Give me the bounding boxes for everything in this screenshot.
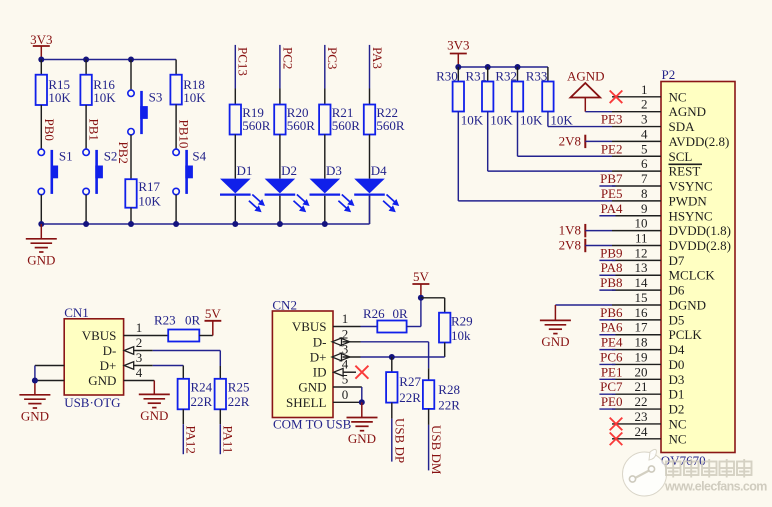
CN2 pin number 4 <box>342 357 349 372</box>
svg-text:PE5: PE5 <box>601 186 623 201</box>
svg-text:D2: D2 <box>281 163 297 178</box>
svg-text:MCLCK: MCLCK <box>669 268 716 283</box>
node PC13 <box>235 45 250 89</box>
resistor R29 <box>439 313 473 343</box>
wire stub pin 13 <box>599 274 615 276</box>
svg-text:PA8: PA8 <box>601 260 623 275</box>
pin 2 wire <box>612 111 661 113</box>
pin number 9 <box>641 201 648 216</box>
svg-text:3V3: 3V3 <box>30 32 52 47</box>
svg-text:11: 11 <box>635 231 648 246</box>
svg-text:10K: 10K <box>93 90 116 105</box>
svg-text:PE0: PE0 <box>601 394 623 409</box>
svg-text:8: 8 <box>641 186 648 201</box>
pin 23 wire <box>612 423 661 425</box>
pin number 10 <box>635 216 648 231</box>
svg-text:D4: D4 <box>669 342 685 357</box>
node PA12 <box>183 409 198 454</box>
wire stub pin 22 <box>599 408 615 410</box>
svg-text:SDA: SDA <box>669 119 696 134</box>
wire col1 pin upper <box>40 60 42 75</box>
svg-text:10K: 10K <box>461 113 484 128</box>
wire SHELL to GND <box>361 402 363 417</box>
svg-text:R25: R25 <box>228 380 250 395</box>
ground GND (DGND pin 15) <box>540 320 571 349</box>
node PB10 <box>177 120 192 149</box>
power 3V3 (P2 pullups) <box>447 38 469 68</box>
svg-text:12: 12 <box>635 245 648 260</box>
pin 16 wire <box>612 319 661 321</box>
svg-text:D4: D4 <box>371 163 387 178</box>
wire stub pin 16 <box>599 319 615 321</box>
node PC3 <box>325 45 340 89</box>
svg-text:18: 18 <box>635 335 648 350</box>
svg-text:560R: 560R <box>332 118 361 133</box>
CN1 pin number 1 <box>136 320 143 335</box>
no-connect pin 24 <box>610 433 623 446</box>
svg-text:22: 22 <box>635 394 648 409</box>
resistor R23 <box>154 313 201 342</box>
pin number 22 <box>635 394 648 409</box>
CN2 pin number 3 <box>342 342 349 357</box>
svg-text:1: 1 <box>641 82 648 97</box>
svg-text:D-: D- <box>313 334 327 349</box>
pin number 24 <box>635 424 649 439</box>
node PB7 (pin 7) <box>600 171 623 186</box>
svg-text:CN1: CN1 <box>64 305 89 320</box>
wire pullup pin upper R32 <box>517 67 519 82</box>
CN1 pin3 wire D+ <box>133 366 183 379</box>
svg-text:DGND: DGND <box>669 297 707 312</box>
junction 5V CN2 <box>418 295 424 301</box>
pin number 6 <box>641 156 648 171</box>
pin name VSYNC (7) <box>669 179 713 194</box>
svg-text:R17: R17 <box>138 179 160 194</box>
pin 15 wire <box>612 304 661 306</box>
no-connect pin 23 <box>610 418 623 431</box>
svg-text:COM TO USB: COM TO USB <box>273 417 352 432</box>
CN2 pin number 5 <box>342 372 349 387</box>
svg-text:USB·OTG: USB·OTG <box>64 395 120 410</box>
wire col4 S4 to bus <box>175 195 177 224</box>
svg-text:R29: R29 <box>451 314 473 329</box>
CN2 pin3 wire D+ <box>343 356 445 358</box>
wire pullup pin upper R31 <box>487 67 489 82</box>
svg-text:P2: P2 <box>662 67 676 82</box>
svg-text:AGND: AGND <box>669 104 707 119</box>
junction bottom bus 4 <box>173 221 179 227</box>
svg-text:NC: NC <box>669 89 687 104</box>
junction SHELL <box>359 399 365 405</box>
pin 18 wire <box>612 349 661 351</box>
svg-text:560R: 560R <box>376 118 405 133</box>
CN2 pin name VBUS <box>292 319 327 334</box>
CN1 pin1 wire <box>124 335 169 337</box>
wire D2 col pin upper <box>279 89 281 105</box>
svg-text:USB DM: USB DM <box>429 425 444 475</box>
resistor R27 <box>386 372 421 405</box>
wire pin 15 to GND <box>555 305 612 320</box>
svg-text:0R: 0R <box>393 306 409 321</box>
svg-text:AGND: AGND <box>567 68 605 83</box>
pin number 5 <box>641 141 648 156</box>
svg-text:PB6: PB6 <box>600 305 623 320</box>
pin name DVDD(2.8) (11) <box>669 238 731 253</box>
pin name NC (24) <box>669 431 687 446</box>
svg-text:D6: D6 <box>669 283 685 298</box>
connector P2 <box>661 67 735 453</box>
node PC2 <box>280 45 295 89</box>
power 2V8 (pin 4) <box>559 133 612 148</box>
pin 7 wire <box>612 185 661 187</box>
svg-text:R24: R24 <box>191 380 213 395</box>
wire stub pin 20 <box>599 378 615 380</box>
wire stub pin 21 <box>599 393 615 395</box>
svg-text:10K: 10K <box>520 113 543 128</box>
switch S2 <box>83 149 118 195</box>
pin name D4 (18) <box>669 342 685 357</box>
svg-text:2V8: 2V8 <box>559 238 581 253</box>
svg-text:1V8: 1V8 <box>559 223 581 238</box>
pin name PWDN (8) <box>669 193 708 208</box>
junction bottom bus 5 <box>232 221 238 227</box>
svg-text:PA12: PA12 <box>183 426 198 454</box>
pin number 7 <box>641 171 648 186</box>
svg-text:560R: 560R <box>287 118 316 133</box>
svg-text:NC: NC <box>669 431 687 446</box>
pin number 4 <box>641 126 648 141</box>
svg-text:D1: D1 <box>237 163 253 178</box>
svg-text:10K: 10K <box>183 90 206 105</box>
svg-text:D-: D- <box>103 343 117 358</box>
resistor R28 <box>423 380 460 412</box>
CN1 pin number 4 <box>136 365 143 380</box>
svg-text:9: 9 <box>641 201 648 216</box>
pin number 11 <box>635 231 648 246</box>
LED D4 <box>354 163 399 212</box>
svg-text:PB9: PB9 <box>600 245 622 260</box>
pin 6 wire <box>612 170 661 172</box>
wire D1 to bus <box>234 196 236 224</box>
CN2 pin4 wire ID <box>343 371 356 373</box>
wire D3 to bus <box>324 196 326 224</box>
pin 3 wire <box>612 126 661 128</box>
pin 12 wire <box>612 259 661 261</box>
wire stub pin 14 <box>599 289 615 291</box>
svg-text:S3: S3 <box>149 90 163 105</box>
svg-text:PB8: PB8 <box>600 275 622 290</box>
resistor R18 <box>170 75 206 105</box>
no-connect ID <box>355 366 368 379</box>
power 5V (CN2) <box>412 269 429 298</box>
CN2 pin name ID <box>313 365 327 380</box>
svg-text:PB10: PB10 <box>177 120 192 149</box>
svg-text:GND: GND <box>88 373 116 388</box>
wire stub pin 12 <box>599 259 615 261</box>
svg-text:D2: D2 <box>669 402 685 417</box>
resistor R19 <box>230 105 271 135</box>
switch S1 <box>38 149 73 195</box>
pin number 12 <box>635 245 648 260</box>
pin name D2 (22) <box>669 402 685 417</box>
resistor R20 <box>274 105 315 135</box>
pin 20 wire <box>612 378 661 380</box>
label COM TO USB <box>273 417 352 432</box>
pin 10 wire <box>612 230 661 232</box>
pin number 17 <box>635 320 649 335</box>
svg-text:CN2: CN2 <box>272 298 297 313</box>
wire R32 to pin 5 <box>518 112 613 157</box>
node PB1 <box>87 119 102 141</box>
wire stub pin 17 <box>599 334 615 336</box>
power 2V8 (pin 11) <box>559 238 612 253</box>
ground GND (CN1 shell) <box>19 395 50 424</box>
svg-text:14: 14 <box>635 275 649 290</box>
svg-text:2: 2 <box>641 97 648 112</box>
junction bottom bus 7 <box>322 221 328 227</box>
ground GND (CN2) <box>347 418 378 447</box>
svg-text:D0: D0 <box>669 357 685 372</box>
wire col1 S1 to bus <box>40 195 42 224</box>
svg-text:GND: GND <box>27 252 55 267</box>
svg-text:GND: GND <box>21 408 49 423</box>
junction D+ R27 <box>389 354 395 360</box>
svg-text:PE4: PE4 <box>601 335 623 350</box>
CN1 pin name D+ <box>100 358 117 373</box>
switch S3 <box>128 90 163 135</box>
pin name PCLK (17) <box>669 327 703 342</box>
junction bottom bus 1 <box>38 221 44 227</box>
svg-text:D5: D5 <box>669 312 685 327</box>
pin name NC (23) <box>669 416 687 431</box>
wire col3 S3 to R17 <box>130 135 132 179</box>
CN1 pin3 arrow <box>124 362 134 370</box>
node PC6 (pin 19) <box>600 349 623 364</box>
ground GND (CN1 pin4) <box>139 394 170 423</box>
wire D1 col pin upper <box>234 89 236 105</box>
svg-text:PC13: PC13 <box>236 47 251 76</box>
switch S4 <box>173 149 207 195</box>
pin 17 wire <box>612 334 661 336</box>
svg-text:R30: R30 <box>436 68 458 83</box>
wire stub pin 9 <box>599 215 615 217</box>
wire 5V to R29 <box>421 298 445 313</box>
wire col3 bus to S3 <box>130 60 132 91</box>
power AGND <box>567 68 605 111</box>
CN1 pin name VBUS <box>82 328 117 343</box>
junction top bus col1 <box>38 57 44 63</box>
pin number 14 <box>635 275 649 290</box>
svg-text:22R: 22R <box>438 398 460 413</box>
svg-text:2: 2 <box>136 335 143 350</box>
svg-text:PC6: PC6 <box>600 349 623 364</box>
power 3V3 (keypad) <box>30 32 52 60</box>
svg-text:10: 10 <box>635 216 648 231</box>
svg-text:5V: 5V <box>413 269 430 284</box>
svg-text:DVDD(1.8): DVDD(1.8) <box>669 223 731 238</box>
label USB-OTG <box>64 395 120 410</box>
node PB2 <box>116 142 131 164</box>
CN2 pin name D+ <box>310 350 327 365</box>
wire pullup pin upper R30 <box>457 67 459 82</box>
svg-text:20: 20 <box>635 364 648 379</box>
pin name AGND (2) <box>669 104 707 119</box>
wire top 3V3 bus <box>41 59 176 61</box>
node PE3 (pin 3) <box>601 112 623 127</box>
wire col4 R18 to S4 <box>175 105 177 150</box>
pin 14 wire <box>612 289 661 291</box>
svg-text:GND: GND <box>298 380 326 395</box>
CN1 pin name D- <box>103 343 117 358</box>
svg-text:VSYNC: VSYNC <box>669 179 713 194</box>
svg-text:PA6: PA6 <box>601 320 623 335</box>
svg-text:24: 24 <box>635 424 649 439</box>
svg-text:PB0: PB0 <box>42 119 57 141</box>
svg-text:10K: 10K <box>48 90 71 105</box>
pin name DVDD(1.8) (10) <box>669 223 731 238</box>
connector CN1 <box>64 305 123 395</box>
svg-text:PCLK: PCLK <box>669 327 703 342</box>
resistor R24 <box>178 379 213 410</box>
svg-text:D+: D+ <box>100 358 117 373</box>
svg-text:USB DP: USB DP <box>392 418 407 463</box>
svg-text:PE2: PE2 <box>601 141 623 156</box>
svg-text:ID: ID <box>313 365 327 380</box>
node PE2 (pin 5) <box>601 141 623 156</box>
svg-text:AVDD(2.8): AVDD(2.8) <box>669 134 730 149</box>
svg-text:R33: R33 <box>526 68 548 83</box>
pin number 23 <box>635 409 648 424</box>
junction top bus col2 <box>83 57 89 63</box>
CN1 pin4 wire GND <box>124 381 155 395</box>
svg-text:PB2: PB2 <box>116 142 131 164</box>
pin name D0 (19) <box>669 357 685 372</box>
pin 11 wire <box>612 245 661 247</box>
pin name SDA (3) <box>669 119 696 134</box>
resistor R32 <box>495 68 543 127</box>
CN2 pin3 arrow <box>332 353 350 361</box>
overline REST <box>669 163 703 165</box>
pin 24 wire <box>612 438 661 440</box>
node PE1 (pin 20) <box>601 364 623 379</box>
pin 8 wire <box>612 200 661 202</box>
CN2 pin4 arrow <box>334 368 344 376</box>
svg-text:GND: GND <box>348 431 376 446</box>
CN2 pin2 arrow <box>332 338 350 346</box>
power 5V (CN1) <box>205 306 222 321</box>
wire R21 to D3 <box>324 135 326 179</box>
pin name D5 (16) <box>669 312 685 327</box>
wire col3 R17 to bus <box>130 208 132 224</box>
resistor R26 <box>363 306 408 333</box>
svg-text:1: 1 <box>136 320 143 335</box>
pin number 13 <box>635 260 648 275</box>
svg-text:PA4: PA4 <box>601 201 623 216</box>
svg-text:1: 1 <box>342 311 349 326</box>
svg-text:PB7: PB7 <box>600 171 623 186</box>
svg-text:VBUS: VBUS <box>82 328 117 343</box>
watermark logo <box>623 449 768 496</box>
junction pullup bus 1 <box>455 64 461 70</box>
svg-text:2V8: 2V8 <box>559 133 581 148</box>
LED D2 <box>265 163 310 212</box>
CN2 pin5 wire GND <box>333 387 362 402</box>
junction bottom bus 3 <box>128 221 134 227</box>
node PB9 (pin 12) <box>600 245 622 260</box>
node PB6 (pin 16) <box>600 305 623 320</box>
LED D3 <box>310 163 355 212</box>
junction bottom bus 2 <box>83 221 89 227</box>
pin 9 wire <box>612 215 661 217</box>
pin number 1 <box>641 82 648 97</box>
svg-text:17: 17 <box>635 320 649 335</box>
CN1 pin number 2 <box>136 335 143 350</box>
svg-text:NC: NC <box>669 416 687 431</box>
pin name AVDD(2.8) (4) <box>669 134 730 149</box>
resistor R30 <box>436 68 484 127</box>
svg-text:22R: 22R <box>191 394 213 409</box>
svg-text:10k: 10k <box>451 328 471 343</box>
svg-text:5: 5 <box>641 141 648 156</box>
svg-text:PE1: PE1 <box>601 364 623 379</box>
svg-text:4: 4 <box>641 126 648 141</box>
wire R20 to D2 <box>279 135 281 179</box>
svg-text:PC3: PC3 <box>325 47 340 69</box>
svg-text:PC2: PC2 <box>280 47 295 69</box>
wire R19 to D1 <box>234 135 236 179</box>
pin number 3 <box>641 112 648 127</box>
CN2 pin name SHELL <box>286 395 327 410</box>
svg-text:S1: S1 <box>59 149 73 164</box>
CN1 pin name GND <box>88 373 116 388</box>
wire D4 to bus <box>369 196 371 224</box>
node USB DP <box>392 403 408 464</box>
svg-text:16: 16 <box>635 305 649 320</box>
svg-text:21: 21 <box>635 379 648 394</box>
pin number 19 <box>635 349 648 364</box>
wire col4 pin upper <box>175 60 177 75</box>
pin 4 wire <box>612 140 661 142</box>
pin number 2 <box>641 97 648 112</box>
svg-text:HSYNC: HSYNC <box>669 208 713 223</box>
svg-text:560R: 560R <box>242 118 271 133</box>
svg-text:www.elecfans.com: www.elecfans.com <box>664 480 767 494</box>
wire stub pin 18 <box>599 349 615 351</box>
node PC7 (pin 21) <box>600 379 623 394</box>
svg-text:D7: D7 <box>669 253 685 268</box>
wire R22 to D4 <box>369 135 371 179</box>
junction pullup bus 2 <box>485 64 491 70</box>
node PA6 (pin 17) <box>601 320 623 335</box>
pin 13 wire <box>612 274 661 276</box>
wire junction to R27 <box>391 357 393 372</box>
pin 22 wire <box>612 408 661 410</box>
svg-text:R28: R28 <box>438 382 460 397</box>
svg-text:DVDD(2.8): DVDD(2.8) <box>669 238 731 253</box>
CN1 pin2 wire D- <box>133 351 220 379</box>
pin name MCLCK (13) <box>669 268 716 283</box>
pin number 21 <box>635 379 648 394</box>
svg-text:D1: D1 <box>669 387 685 402</box>
label OV7670 <box>661 453 706 468</box>
pin name HSYNC (9) <box>669 208 713 223</box>
node PE0 (pin 22) <box>601 394 623 409</box>
junction top bus col3 <box>128 57 134 63</box>
svg-text:GND: GND <box>541 334 569 349</box>
svg-text:R26: R26 <box>363 306 385 321</box>
pin name D7 (12) <box>669 253 685 268</box>
pin 1 wire <box>612 96 661 98</box>
